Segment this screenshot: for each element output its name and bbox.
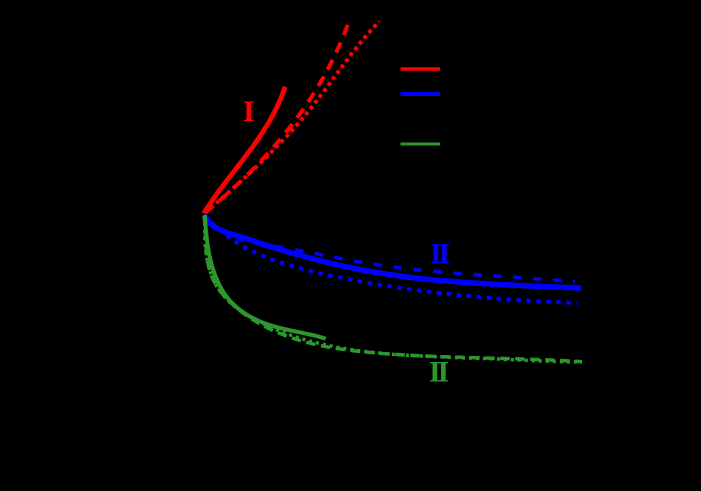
curve II green dashed (204, 216, 582, 362)
legend green line (401, 143, 441, 146)
legend blue line (401, 92, 441, 96)
svg-text:II: II (429, 356, 448, 389)
curve II green dotted (205, 216, 582, 362)
curve II blue solid (205, 215, 581, 288)
curve II blue dashed (204, 215, 575, 282)
svg-text:II: II (430, 237, 449, 270)
curve I red dotted (205, 21, 379, 213)
curve I red dashed (205, 25, 348, 213)
legend red line (401, 67, 441, 71)
svg-text:I: I (243, 95, 255, 128)
curve II green solid (205, 215, 326, 339)
curve II blue dotted (205, 215, 577, 303)
curve I red solid (204, 87, 285, 214)
